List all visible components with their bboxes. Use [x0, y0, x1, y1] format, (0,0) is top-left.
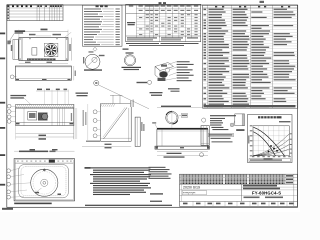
front view bottom lip	[155, 146, 210, 149]
balloon 18 left	[202, 118, 206, 122]
duct size tag	[181, 114, 187, 117]
left section lower dims	[16, 133, 74, 135]
operating point dots	[270, 145, 272, 147]
graph fan curves	[253, 127, 284, 156]
filter panel rounded	[19, 165, 69, 198]
graph resistance curves	[253, 134, 289, 156]
detail circle A	[85, 54, 100, 69]
left section right vertical dims	[72, 108, 74, 139]
svg-text:2020/ 6/19: 2020/ 6/19	[183, 186, 200, 190]
elevation balloon	[10, 75, 14, 79]
dim line between plan and elevation	[19, 63, 68, 65]
caption circle A	[84, 69, 102, 70]
graph bottom note box	[249, 159, 291, 162]
plan view body	[19, 38, 68, 61]
body spec label left	[76, 93, 89, 94]
bottom view balloons	[7, 169, 11, 173]
left section balloons	[7, 104, 11, 108]
sheet border frame	[7, 5, 298, 207]
exploded leaders	[168, 62, 176, 65]
duct collar circle	[166, 112, 178, 124]
side panel tall rect	[135, 117, 140, 146]
shield spec label + balloon 13	[137, 82, 148, 83]
accessories parts list table	[83, 5, 123, 46]
front view top dim	[157, 106, 208, 108]
notes text block	[85, 167, 151, 168]
drain cap dark line	[209, 127, 211, 129]
motor cluster	[28, 112, 37, 121]
related model list	[149, 167, 166, 168]
left section view ceiling hatch	[16, 104, 74, 108]
svg-text:****/**/**: ****/**/**	[183, 191, 196, 195]
characteristics spec table	[159, 2, 162, 4]
plan view dimension 920	[19, 31, 68, 33]
svg-text:FY-60HGC4-S: FY-60HGC4-S	[252, 190, 281, 195]
fan unit in plan view	[44, 43, 58, 57]
section bottom panel	[16, 122, 74, 124]
final note line bottom	[85, 205, 172, 206]
revision table top-left	[7, 5, 63, 21]
rotated dim text 400-700	[83, 110, 84, 126]
middle section outline	[100, 104, 102, 142]
graph title	[258, 116, 260, 118]
bottom view outer rect	[14, 159, 74, 201]
notes under spec table	[126, 43, 159, 44]
middle balloons column	[93, 110, 97, 114]
makeup panel diagonal	[104, 108, 128, 140]
left edge registration ticks	[0, 33, 5, 35]
detail circle B	[124, 55, 135, 66]
plan view screw holes	[20, 38, 21, 39]
exploded labels right	[177, 61, 190, 62]
sheet label bottom-left corner	[2, 208, 13, 210]
drain cap mid labels	[211, 127, 223, 128]
drain cap boxed label	[209, 133, 234, 136]
middle section bottom plate marks	[86, 141, 100, 142]
model rows right	[242, 186, 298, 188]
side apron narrow drawing	[201, 126, 209, 146]
lamp opening	[32, 48, 37, 55]
graph plot area	[253, 126, 289, 156]
front elevation body	[15, 66, 71, 80]
graph y labels	[250, 125, 253, 126]
plan view left slab	[13, 40, 18, 60]
front view body	[157, 128, 208, 129]
dim above side panel	[130, 101, 131, 108]
dims above left section view	[37, 89, 42, 91]
bottom view circle	[31, 169, 58, 196]
bottom view top dim	[14, 150, 74, 152]
graph right edge labels	[290, 133, 292, 134]
bottom view top strip	[15, 162, 73, 164]
plan view bottom vent strip	[27, 58, 56, 60]
front view bottom dims	[157, 151, 208, 153]
right parts/material table	[203, 5, 298, 108]
balloon 21	[94, 80, 99, 85]
bottom border double	[7, 206, 298, 208]
body spec label right	[150, 92, 163, 93]
duct stub on middle section top	[112, 95, 114, 104]
middle section ceiling hatch	[101, 104, 103, 107]
performance graph box	[248, 115, 293, 163]
drain cap detail drawing	[230, 123, 234, 127]
elevation right dim	[73, 66, 75, 80]
front view balloon bottom right	[200, 153, 204, 157]
left section view body	[16, 108, 74, 126]
far right narrow col	[293, 174, 295, 206]
caption circle B	[122, 67, 142, 68]
exhaust adapter label top-left	[15, 30, 26, 32]
graph x labels	[252, 156, 254, 157]
plan view right vertical dim	[71, 38, 73, 61]
middle section bottom dims	[82, 145, 131, 147]
bottom view caption	[14, 203, 52, 205]
revision hatched rows	[181, 175, 224, 178]
exploded view assembly	[155, 63, 174, 71]
diamond mark	[93, 47, 97, 51]
caption under left section	[19, 151, 48, 153]
drain cap labels	[210, 115, 236, 116]
title block bottom strip	[192, 201, 194, 206]
left section labels	[10, 95, 26, 96]
title block frame	[180, 174, 298, 206]
exploded labels below	[168, 88, 180, 89]
date row	[180, 189, 242, 191]
small left elements of front view	[152, 122, 156, 123]
page number mark top	[260, 1, 265, 3]
